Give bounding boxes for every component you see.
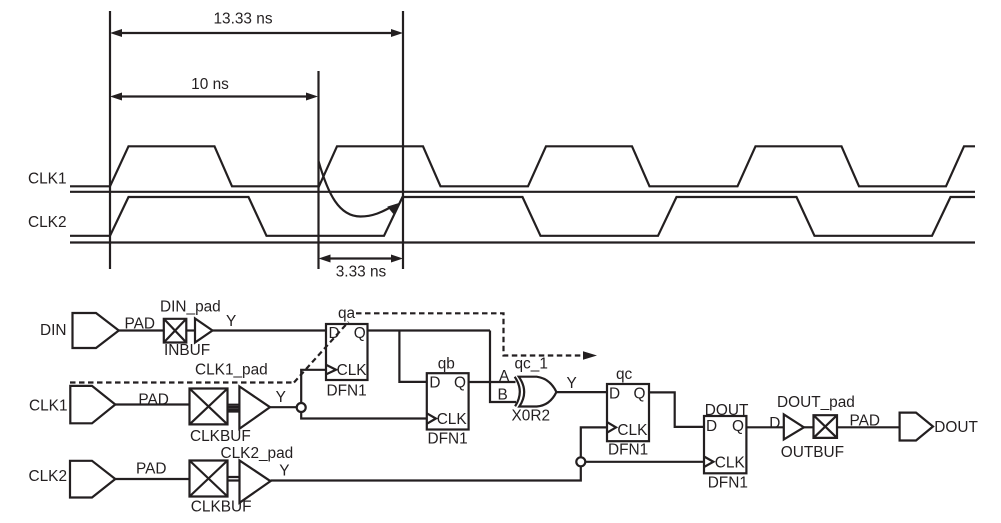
svg-text:DIN_pad: DIN_pad	[160, 299, 221, 316]
svg-text:PAD: PAD	[125, 315, 156, 332]
svg-text:B: B	[498, 387, 508, 404]
wire CLKBUF2 out to node 2	[271, 466, 581, 480]
buffer triangle CLKBUF (CLK2)	[240, 460, 271, 502]
dimension arrow 3.33 ns	[319, 255, 404, 263]
wire OUTBUF triangle to pad box	[804, 426, 814, 428]
wire node down to qb CLK	[301, 412, 427, 419]
dashed net CLK1_pad diagonal to qa	[294, 322, 349, 383]
svg-text:CLK: CLK	[337, 362, 368, 379]
curved annotation arrow	[319, 161, 401, 217]
wire DOUT Q to OUTBUF	[746, 426, 783, 428]
svg-text:qb: qb	[438, 356, 455, 373]
dimension arrow 13.33 ns	[110, 29, 403, 37]
buffer triangle OUTBUF	[784, 414, 804, 439]
svg-text:Q: Q	[454, 375, 466, 392]
wire CLK2 pad to CLKBUF	[115, 478, 189, 480]
wire qa Q output	[368, 329, 491, 331]
svg-text:Y: Y	[226, 313, 236, 330]
flip-flop qc box	[607, 384, 649, 441]
input pad DIN	[73, 313, 119, 348]
svg-text:CLK2_pad: CLK2_pad	[221, 445, 294, 462]
wire node2 right to DOUT CLK	[585, 461, 704, 463]
svg-text:X0R2: X0R2	[512, 408, 551, 425]
pad cell OUTBUF box	[814, 415, 838, 438]
output pad DOUT	[900, 413, 933, 441]
wire OUTBUF box to DOUT pad	[837, 426, 900, 428]
svg-text:3.33 ns: 3.33 ns	[336, 264, 387, 281]
svg-text:A: A	[499, 368, 510, 385]
svg-text:D: D	[429, 375, 440, 392]
wire CLK1 pad to CLKBUF	[115, 403, 189, 405]
svg-text:CLK: CLK	[617, 422, 648, 439]
svg-text:Y: Y	[276, 389, 286, 406]
CLKBUF bus connector (CLK1)	[228, 405, 240, 412]
input pad CLK2	[70, 461, 115, 498]
dashed net qa to qc_1 with arrow	[356, 313, 597, 360]
svg-text:Q: Q	[634, 386, 646, 403]
CLK2 low stub	[70, 235, 110, 237]
svg-text:PAD: PAD	[138, 392, 169, 409]
wire qa Q branch to qb D	[399, 331, 426, 382]
svg-text:qc_1: qc_1	[515, 356, 548, 373]
wire node up to qa CLK	[301, 370, 326, 403]
qa clock pin triangle	[326, 365, 336, 375]
svg-text:Q: Q	[354, 325, 366, 342]
marker line right (13.33 ns)	[402, 11, 404, 269]
buffer triangle INBUF	[195, 319, 213, 343]
svg-text:CLKBUF: CLKBUF	[191, 498, 252, 515]
node circle CLK2 net	[576, 457, 585, 466]
DOUT clock pin triangle	[704, 457, 713, 468]
pad cell CLKBUF box (CLK1)	[190, 389, 228, 425]
dashed net CLK1_pad horizontal	[70, 381, 294, 383]
dimension arrow 10 ns	[110, 93, 318, 101]
CLKBUF bus connector (CLK2)	[228, 477, 240, 481]
svg-text:CLKBUF: CLKBUF	[190, 428, 251, 445]
wire DIN pad to INBUF	[119, 329, 164, 331]
svg-text:OUTBUF: OUTBUF	[781, 444, 844, 461]
wire qb Q to XOR A	[469, 381, 516, 383]
marker line left (t=0)	[109, 11, 111, 269]
svg-text:10 ns: 10 ns	[191, 76, 229, 93]
flip-flop qa box	[326, 324, 368, 380]
svg-text:PAD: PAD	[136, 461, 167, 478]
svg-text:DOUT_pad: DOUT_pad	[777, 394, 855, 411]
svg-text:CLK: CLK	[715, 454, 746, 471]
CLK2 axis rail	[70, 241, 975, 243]
CLK1 waveform	[110, 146, 975, 186]
svg-text:Y: Y	[279, 463, 289, 480]
node circle CLK1 net	[297, 403, 306, 412]
svg-text:DFN1: DFN1	[708, 475, 748, 492]
svg-text:DOUT: DOUT	[705, 402, 749, 419]
svg-text:DOUT: DOUT	[934, 419, 978, 436]
input pad CLK1	[70, 386, 115, 423]
marker line middle (10 ns)	[317, 71, 319, 269]
svg-text:CLK: CLK	[437, 411, 468, 428]
flip-flop qb box	[427, 373, 469, 429]
svg-text:D: D	[706, 418, 717, 435]
wire XOR Y to qc D	[556, 391, 607, 393]
svg-text:DFN1: DFN1	[428, 431, 468, 448]
CLK1 low stub	[70, 185, 110, 187]
svg-text:CLK1: CLK1	[29, 397, 68, 414]
svg-text:CLK1: CLK1	[28, 171, 67, 188]
svg-text:DFN1: DFN1	[327, 383, 367, 400]
wire qc Q to DOUT D	[649, 392, 704, 427]
XOR gate X0R2	[515, 377, 557, 407]
svg-text:13.33 ns: 13.33 ns	[213, 11, 272, 28]
svg-text:CLK1_pad: CLK1_pad	[195, 362, 268, 379]
svg-text:qc: qc	[616, 366, 633, 383]
buffer triangle CLKBUF (CLK1)	[239, 386, 270, 428]
CLK2 waveform	[110, 197, 975, 236]
qb clock pin triangle	[427, 413, 436, 424]
wire INBUF box to buffer	[186, 329, 195, 331]
svg-text:CLK2: CLK2	[29, 468, 68, 485]
qc clock pin triangle	[607, 422, 616, 433]
wire Y to qa D	[213, 329, 327, 331]
pad cell CLKBUF box (CLK2)	[190, 461, 228, 497]
svg-text:DIN: DIN	[40, 322, 67, 339]
svg-text:DFN1: DFN1	[608, 442, 648, 459]
svg-text:Y: Y	[567, 375, 577, 392]
svg-text:CLK2: CLK2	[28, 214, 67, 231]
svg-text:qa: qa	[338, 305, 356, 322]
svg-text:INBUF: INBUF	[164, 342, 210, 359]
svg-text:D: D	[769, 415, 780, 432]
svg-text:Q: Q	[732, 418, 744, 435]
flip-flop DOUT box	[704, 416, 746, 473]
CLK1 axis rail	[70, 191, 975, 193]
svg-text:D: D	[609, 386, 620, 403]
pad cell INBUF box	[164, 319, 187, 343]
wire CLKBUF1 out to node	[270, 406, 297, 408]
wire node2 up to qc CLK	[581, 427, 607, 457]
wire qa Q to XOR B	[490, 331, 516, 403]
